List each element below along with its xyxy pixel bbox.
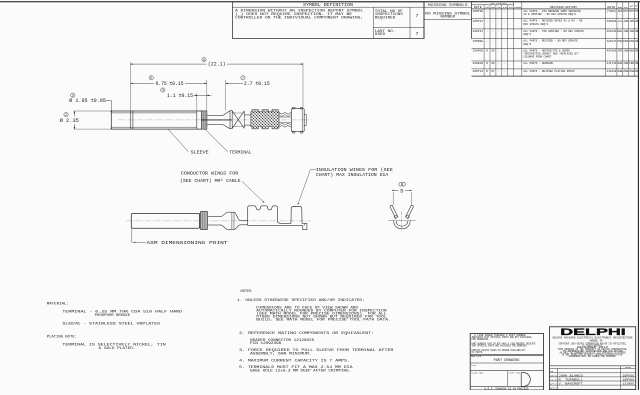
- svg-text:WDG: WDG: [635, 50, 639, 53]
- svg-text:MISSING SYMBOLS: MISSING SYMBOLS: [428, 4, 468, 8]
- svg-text:186137: 186137: [607, 40, 617, 43]
- svg-text:AW: AW: [617, 70, 623, 73]
- svg-text:PART DRAWING: PART DRAWING: [494, 359, 520, 363]
- svg-text:THAT PHYSICAL PARTS ARE AVAILA: THAT PHYSICAL PARTS ARE AVAILABLE FOR OR…: [472, 345, 528, 348]
- svg-text:05: 05: [491, 50, 495, 53]
- svg-text:ASM DIMENSIONING POINT: ASM DIMENSIONING POINT: [147, 240, 228, 246]
- svg-text:JHS: JHS: [635, 20, 639, 23]
- svg-text:6: 6: [203, 58, 205, 62]
- svg-text:REQUIRED: REQUIRED: [375, 15, 396, 19]
- svg-text:MTP: MTP: [635, 10, 639, 13]
- svg-text:100366: 100366: [607, 20, 617, 23]
- svg-text:V. BANCROFT: V. BANCROFT: [559, 383, 584, 386]
- svg-text:OFFENDERS WILL BE LIABLE FOR D: OFFENDERS WILL BE LIABLE FOR DAMAGES.: [569, 355, 617, 358]
- svg-text:13JN96: 13JN96: [623, 383, 635, 386]
- svg-text:D: D: [400, 188, 403, 194]
- svg-text:NOTES: NOTES: [241, 290, 252, 294]
- svg-text:407809: 407809: [607, 50, 617, 53]
- svg-text:Ø 1.95 ±0.05: Ø 1.95 ±0.05: [69, 97, 106, 104]
- svg-text:TERMINAL: TERMINAL: [229, 150, 252, 156]
- svg-text:JHW: JHW: [623, 30, 628, 33]
- svg-text:AUTH: AUTH: [607, 6, 616, 9]
- svg-text:4: 4: [162, 88, 164, 92]
- svg-text:ZONE: ZONE: [514, 6, 522, 9]
- svg-text:REQ'D: REQ'D: [523, 42, 531, 46]
- svg-text:JHW: JHW: [623, 50, 628, 53]
- svg-text:WHS: WHS: [617, 62, 622, 65]
- svg-text:7: 7: [416, 13, 419, 19]
- svg-text:NUMBER: NUMBER: [441, 16, 456, 20]
- svg-text:FRE: FRE: [635, 62, 639, 65]
- svg-text:JHW: JHW: [635, 30, 639, 33]
- svg-text:R. TURNBULL: R. TURNBULL: [559, 379, 584, 382]
- svg-text:22OC97: 22OC97: [473, 30, 484, 33]
- svg-text:MATERIAL:: MATERIAL:: [47, 303, 69, 307]
- svg-text:& GOLD PLATED.: & GOLD PLATED.: [99, 347, 136, 351]
- svg-text:26MY96: 26MY96: [473, 10, 484, 13]
- svg-text:APP'D: APP'D: [550, 383, 557, 386]
- svg-text:418348: 418348: [607, 70, 617, 73]
- svg-text:PIN 12092396: PIN 12092396: [250, 342, 281, 346]
- svg-text:REV UPDATE REQ'D: REV UPDATE REQ'D: [523, 22, 548, 26]
- svg-text:SLEEVE - STAINLESS STEEL UNPLA: SLEEVE - STAINLESS STEEL UNPLATED: [62, 322, 160, 326]
- svg-text:JUAN BLANCO: JUAN BLANCO: [559, 374, 584, 377]
- svg-text:4. MAXIMUM CURRENT CAPACITY I: 4. MAXIMUM CURRENT CAPACITY IS 7 AMPS.: [239, 359, 350, 363]
- svg-text:ASSEMBLY, 60N MINIMUM.: ASSEMBLY, 60N MINIMUM.: [250, 353, 312, 357]
- svg-text:411744: 411744: [607, 62, 617, 65]
- svg-text:PLANE VIEW: PLANE VIEW: [471, 372, 484, 375]
- svg-text:CONTROLLED ON THE INDIVIDUAL C: CONTROLLED ON THE INDIVIDUAL COMPONENT D…: [235, 16, 363, 20]
- svg-text:BUILD, SEE MATH MODEL FOR PREC: BUILD, SEE MATH MODEL FOR PRECISE TOOL P…: [256, 319, 390, 323]
- svg-text:SYMBOL DEFINITION: SYMBOL DEFINITION: [303, 2, 353, 8]
- svg-text:Ø 2.35: Ø 2.35: [60, 117, 79, 124]
- svg-text:161034: 161034: [607, 30, 617, 33]
- svg-text:25AP09: 25AP09: [473, 50, 484, 53]
- svg-text:MTP: MTP: [623, 10, 628, 13]
- svg-text:AW: AW: [635, 70, 639, 73]
- svg-text:PLATING NOTE:: PLATING NOTE:: [47, 335, 77, 339]
- svg-text:GAGE HOLE 12±0.3 MM DEEP AFTER: GAGE HOLE 12±0.3 MM DEEP AFTER CRIMPING.: [250, 369, 351, 373]
- svg-text:ALL PARTS - REVISED - NO REV U: ALL PARTS - REVISED - NO REV UPDATE: [523, 40, 578, 43]
- svg-text:DXB: DXB: [635, 40, 639, 43]
- svg-text:CK'D: CK'D: [550, 379, 557, 382]
- svg-text:DWG TYPE: DWG TYPE: [471, 355, 482, 358]
- svg-text:SLEEVE: SLEEVE: [191, 150, 209, 156]
- svg-text:DXB: DXB: [623, 40, 628, 43]
- svg-text:STYLE: STYLE: [471, 364, 477, 367]
- svg-text:PHOSPHOR BRONZE: PHOSPHOR BRONZE: [95, 314, 131, 318]
- svg-text:CONDUCTOR WINGS FOR: CONDUCTOR WINGS FOR: [181, 170, 239, 176]
- svg-text:JHS: JHS: [623, 20, 628, 23]
- svg-text:OF PARTS.: OF PARTS.: [472, 351, 484, 354]
- svg-text:SIGHT VIEW: SIGHT VIEW: [509, 372, 521, 375]
- svg-text:DATE: DATE: [474, 6, 483, 9]
- svg-text:26MY96: 26MY96: [623, 379, 635, 382]
- svg-text:EWL: EWL: [617, 30, 622, 33]
- svg-text:15MR98: 15MR98: [473, 40, 484, 43]
- svg-text:16MY97: 16MY97: [473, 20, 484, 23]
- svg-text:7: 7: [416, 31, 419, 37]
- svg-text:CHART) MAX INSULATION DIA: CHART) MAX INSULATION DIA: [316, 172, 389, 178]
- svg-text:(SEE CHART) MM² CABLE: (SEE CHART) MM² CABLE: [180, 178, 241, 184]
- svg-text:AW: AW: [623, 70, 629, 73]
- svg-text:FOR ORDERING.: FOR ORDERING.: [472, 338, 490, 341]
- svg-text:ALL PARTS - REVISED PLATING NO: ALL PARTS - REVISED PLATING NOTES: [523, 70, 575, 73]
- svg-text:3: 3: [72, 93, 74, 97]
- svg-text:DR'D: DR'D: [550, 374, 557, 377]
- svg-text:ALL PARTS - REDRAWN: ALL PARTS - REDRAWN: [523, 62, 553, 65]
- svg-text:APP'D: APP'D: [550, 387, 557, 390]
- svg-text:2D & UPDATED - NO REV UPDATE R: 2D & UPDATED - NO REV UPDATE REQ'D: [523, 12, 576, 16]
- svg-text:04SE10: 04SE10: [473, 62, 484, 65]
- svg-text:9.75 ±0.15: 9.75 ±0.15: [156, 81, 184, 87]
- svg-text:(22.1): (22.1): [208, 62, 226, 68]
- svg-text:5: 5: [150, 76, 152, 80]
- svg-text:2. REFERENCE MATING COMPONENT: 2. REFERENCE MATING COMPONENTS OR EQUIVA…: [239, 332, 374, 336]
- svg-text:07: 07: [491, 70, 495, 73]
- svg-text:JES: JES: [617, 10, 622, 13]
- svg-text:REQ'D: REQ'D: [523, 32, 531, 36]
- svg-text:1. UNLESS OTHERWISE SPECIFIED: 1. UNLESS OTHERWISE SPECIFIED AND/OR IND…: [237, 298, 365, 303]
- svg-text:PDW: PDW: [617, 40, 622, 43]
- svg-text:USED: USED: [375, 32, 385, 36]
- svg-text:06: 06: [491, 62, 495, 65]
- svg-text:JMF: JMF: [617, 50, 622, 53]
- svg-text:JHW: JHW: [623, 62, 628, 65]
- svg-text:REVISION HISTORY: REVISION HISTORY: [550, 6, 578, 9]
- svg-text:MM STATUS: MM STATUS: [491, 2, 508, 5]
- svg-text:(TS42): (TS42): [607, 9, 617, 13]
- svg-text:2.7 ±0.15: 2.7 ±0.15: [244, 81, 270, 87]
- svg-text:7: 7: [242, 76, 244, 80]
- svg-text:26MY96: 26MY96: [623, 374, 635, 377]
- svg-text:1.1 ±0.15: 1.1 ±0.15: [167, 93, 193, 99]
- svg-text:COLUMNS FROM CHART: COLUMNS FROM CHART: [523, 56, 551, 59]
- svg-text:28MY12: 28MY12: [473, 70, 484, 73]
- svg-text:ALL PARTS - PID UPDATED - NO R: ALL PARTS - PID UPDATED - NO REV UPDATE: [523, 30, 584, 33]
- svg-text:JJL: JJL: [617, 20, 622, 23]
- svg-text:2: 2: [65, 113, 67, 117]
